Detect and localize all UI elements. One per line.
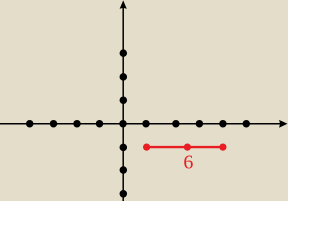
dot origin [119, 120, 127, 128]
dot (4,0) [219, 120, 227, 128]
dot (0,-3) [120, 190, 128, 198]
dot (5,0) [243, 120, 251, 128]
dot (0,-2) [120, 166, 128, 174]
dot (0,3) [120, 49, 128, 57]
red endpoint left [143, 144, 150, 151]
dot (-3,0) [50, 120, 58, 128]
dot (-4,0) [26, 120, 34, 128]
dot (0,1) [120, 96, 128, 104]
x-axis [0, 123, 281, 125]
dot (0,2) [120, 73, 128, 81]
dot (-1,0) [96, 120, 104, 128]
x-axis arrowhead [279, 120, 288, 128]
red segment [147, 146, 223, 148]
red endpoint right [219, 144, 226, 151]
svg-text:6: 6 [183, 152, 193, 174]
red midpoint [184, 144, 191, 151]
y-axis arrowhead [120, 0, 127, 9]
dot (3,0) [196, 120, 204, 128]
dot (1,0) [142, 120, 150, 128]
dot (-2,0) [73, 120, 81, 128]
y-axis [122, 7, 124, 201]
dot (0,-1) [120, 144, 128, 152]
dot (2,0) [172, 120, 180, 128]
